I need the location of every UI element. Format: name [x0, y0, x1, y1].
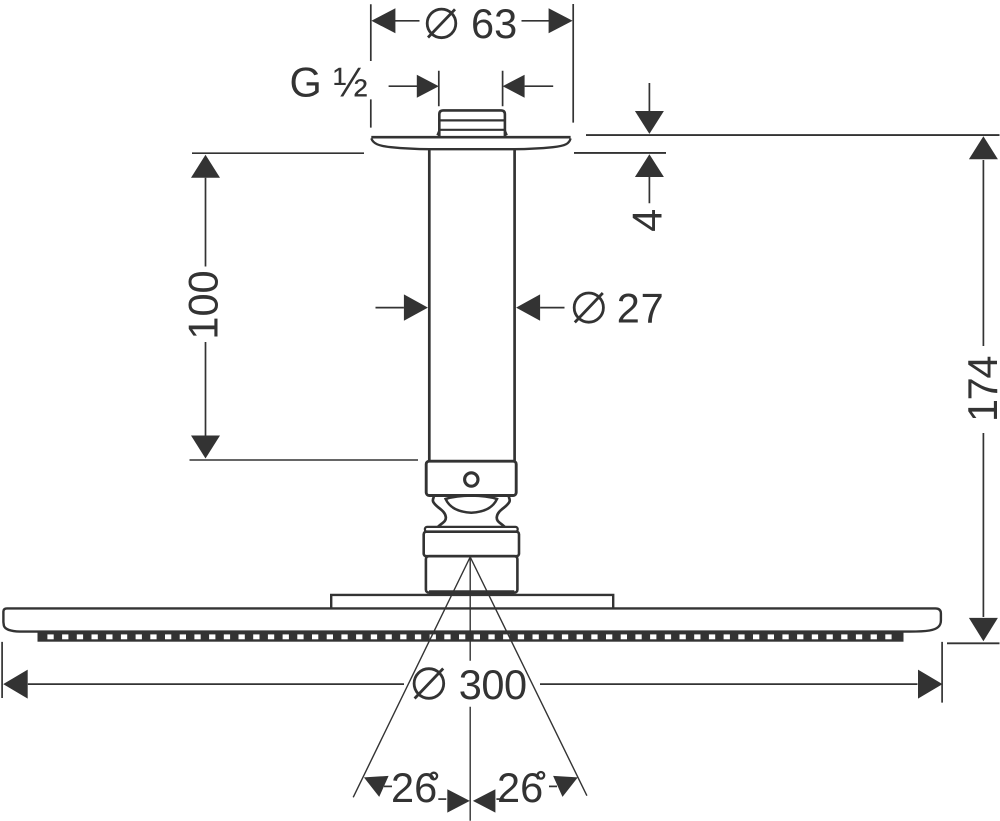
spray nozzle band [38, 631, 904, 642]
dimension Ø300: text [414, 661, 526, 708]
svg-text:26: 26 [497, 764, 543, 811]
angle 26° left: outer arrow [364, 776, 392, 797]
angle 26° right: inner arrow [473, 789, 505, 812]
flange underside reference line [574, 152, 666, 154]
angle 26° right: outer arrow [549, 776, 578, 797]
dimension G 1/2: lines and arrows [389, 71, 554, 107]
svg-text:26: 26 [391, 764, 437, 811]
spray cone right line [470, 557, 587, 796]
svg-text:174: 174 [959, 357, 1000, 422]
collar box [426, 461, 516, 495]
svg-text:100: 100 [180, 270, 227, 339]
ball lens [446, 496, 497, 513]
ball joint left profile [433, 497, 446, 527]
shower arm pipe [429, 150, 514, 461]
dimension Ø63: text [427, 0, 517, 47]
head connector rim [425, 527, 518, 532]
dimension Ø63: dimension line and arrows [371, 8, 572, 33]
screw hole [465, 473, 478, 486]
shower head disc [3, 608, 941, 631]
head connector lower box [426, 556, 518, 592]
svg-text:4: 4 [624, 209, 671, 232]
ceiling reference line [586, 134, 1000, 136]
dimension Ø27: text [574, 285, 664, 332]
lower box thick bottom edge [429, 590, 514, 594]
spray cone left line [353, 557, 470, 797]
svg-text:27: 27 [617, 285, 665, 332]
angle 26° left: text [391, 764, 437, 811]
dimension 4: line and arrows [635, 83, 664, 203]
dimension 174: line and arrows [969, 136, 998, 641]
svg-text:300: 300 [459, 661, 527, 708]
angle 26° right: text [497, 764, 544, 811]
dimension 100: dimension line and arrows [191, 155, 220, 459]
ball joint right profile [497, 497, 510, 527]
head connector upper box [424, 532, 519, 557]
dimension Ø300: dimension line and arrows [3, 670, 942, 699]
nozzle-level reference line [947, 642, 1000, 644]
ceiling flange [371, 137, 570, 149]
svg-text:G ½: G ½ [290, 59, 368, 106]
dimension Ø300: extension lines [2, 642, 942, 703]
dimension Ø27: arrows [376, 294, 565, 320]
svg-text:63: 63 [471, 0, 517, 47]
dimension Ø63: extension lines [371, 4, 573, 128]
threaded nipple G1/2 [437, 110, 506, 136]
angle 26° left: inner arrow [438, 789, 470, 812]
dimension 100: reference lines [190, 153, 419, 460]
mounting plate [331, 595, 613, 608]
spray cone center line [469, 557, 471, 821]
